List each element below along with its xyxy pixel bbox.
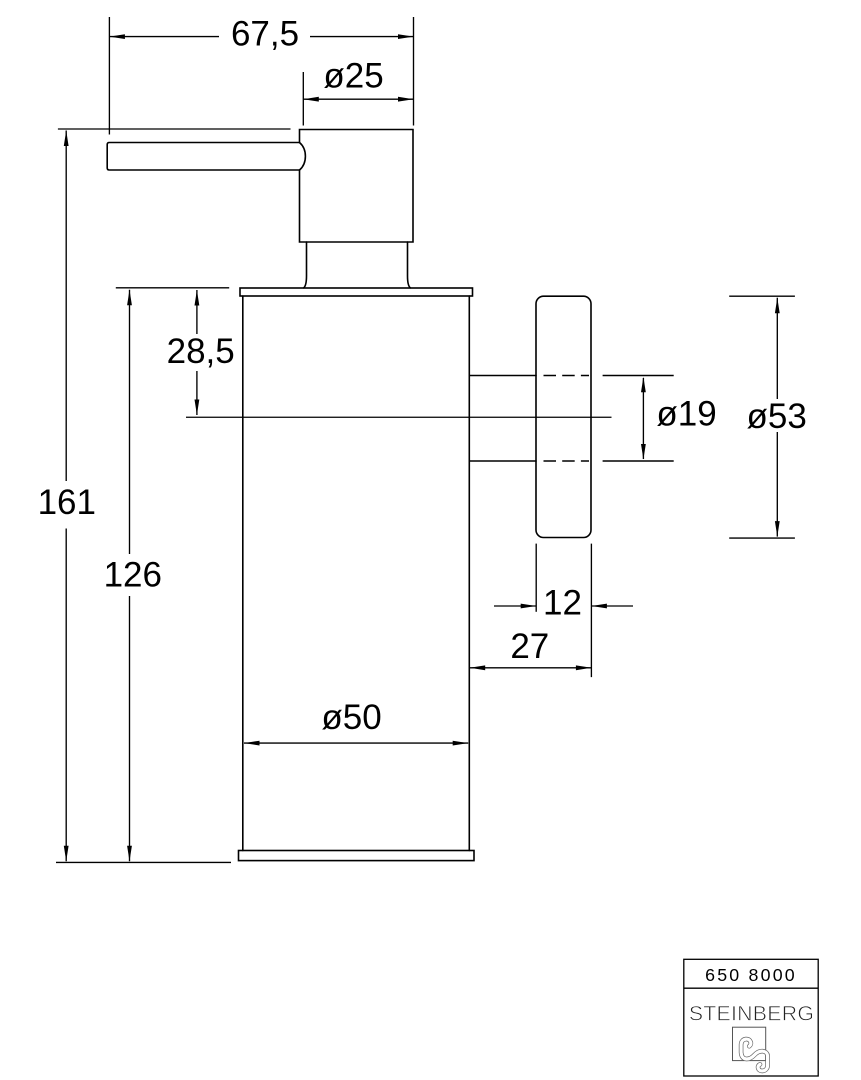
svg-text:126: 126 (104, 556, 162, 595)
svg-text:STEINBERG: STEINBERG (689, 1002, 814, 1026)
svg-text:ø19: ø19 (656, 395, 716, 434)
svg-text:161: 161 (38, 483, 96, 522)
svg-text:ø53: ø53 (747, 397, 807, 436)
svg-text:650 8000: 650 8000 (705, 965, 797, 985)
svg-text:28,5: 28,5 (167, 332, 235, 371)
svg-text:ø50: ø50 (321, 698, 381, 737)
svg-text:67,5: 67,5 (231, 15, 299, 54)
svg-text:ø25: ø25 (323, 57, 383, 96)
svg-text:27: 27 (510, 627, 549, 666)
svg-text:12: 12 (543, 584, 582, 623)
